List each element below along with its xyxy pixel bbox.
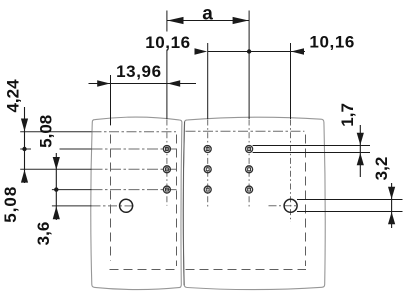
big mounting hole right xyxy=(284,199,297,212)
dimension 5,08 upper: up arrowhead at row2 xyxy=(21,170,28,183)
svg-text:10,16: 10,16 xyxy=(309,33,355,52)
svg-text:10,16: 10,16 xyxy=(145,33,191,52)
svg-text:a: a xyxy=(202,3,213,24)
dimension 1,7: vertical dimension line xyxy=(359,125,361,177)
pin circle col1 row2 xyxy=(163,166,170,173)
centerline column 3 vertical xyxy=(248,120,250,207)
centerline column 1 vertical xyxy=(166,120,168,206)
dimension 13,96: dimension line with outside tails xyxy=(89,83,197,85)
dimension 3,6: up arrowhead at big hole row xyxy=(53,206,60,219)
dimension 3,2: down arrowhead xyxy=(388,187,395,199)
pin circle col2 row3 xyxy=(204,186,211,193)
centerline pin row 2 xyxy=(20,168,91,170)
pin circle col1 row1 xyxy=(163,146,170,153)
pin circle col3 row1 xyxy=(246,146,253,153)
dimension 3,2: lower tangent line xyxy=(297,211,403,213)
pin circle col1 row3 xyxy=(163,186,170,193)
centerline column 2 vertical xyxy=(207,120,209,207)
dimension 1,7: down arrowhead xyxy=(357,133,364,145)
dimension a: left arrowhead xyxy=(167,17,183,24)
pin circle col3 row2 xyxy=(246,166,253,173)
svg-text:3,2: 3,2 xyxy=(372,157,391,181)
dimension 10,16: shared dimension line xyxy=(208,51,305,53)
pin circle col2 row2 xyxy=(204,166,211,173)
dimension 1,7: up arrowhead xyxy=(357,153,364,165)
svg-text:5,08: 5,08 xyxy=(36,115,55,148)
centerline pin row 3 xyxy=(52,189,92,191)
block junction darker line xyxy=(183,122,184,286)
svg-text:4,24: 4,24 xyxy=(4,79,23,113)
dimension a: extension line col1 xyxy=(166,11,168,120)
dimension a: dimension line xyxy=(167,20,249,22)
dimension 10,16 left: extension line col2 xyxy=(207,43,209,119)
right block outline xyxy=(183,117,325,289)
dimension 3,2: up arrowhead xyxy=(388,212,395,224)
dimension 10,16 left: arrowhead at col2 xyxy=(195,48,208,54)
dimension 10,16: junction dot at col3 xyxy=(247,49,251,53)
junction dot at row1 on line A xyxy=(22,147,26,151)
svg-text:5,08: 5,08 xyxy=(1,186,20,223)
big mounting hole left xyxy=(120,199,133,212)
dimension a: right arrowhead xyxy=(233,17,249,24)
svg-text:13,96: 13,96 xyxy=(116,62,162,81)
centerline pin row 1 xyxy=(20,148,91,150)
dimension 13,96: right outside arrowhead xyxy=(167,80,180,86)
dimension 10,16 right: extension line big hole column xyxy=(290,43,292,119)
centerline row y=131.5 right block xyxy=(186,130,305,132)
pin circle col3 row3 xyxy=(246,186,253,193)
right block hidden inner rectangle (dashed) xyxy=(186,135,307,270)
dimension 1,7: upper tangent line xyxy=(253,145,370,147)
centerline big hole row right xyxy=(269,205,298,207)
centerline big hole row left xyxy=(52,205,92,207)
centerline big hole column right vertical xyxy=(290,120,292,223)
dimension 4,24 / 5,08 chain: vertical dimension line A xyxy=(24,107,26,183)
dimension 3,2: vertical dimension line xyxy=(391,183,393,228)
svg-text:3,6: 3,6 xyxy=(34,222,53,246)
dimension 3,2: upper tangent line xyxy=(297,199,403,201)
dimension 1,7: lower tangent line xyxy=(253,152,370,154)
dimension 5,08 lower / 3,6 chain: vertical dimension line B xyxy=(55,153,57,220)
dimension 4,24: down arrowhead at y=131.8 xyxy=(21,119,28,132)
dimension 13,96: left outside arrowhead xyxy=(97,80,110,86)
left block outline xyxy=(91,117,182,290)
centerline row y=131.7 left block xyxy=(20,131,91,133)
dimension a: extension line col3 xyxy=(248,11,250,120)
pin circle col2 row1 xyxy=(204,146,211,153)
dimension 13,96: extension line x=110.3 xyxy=(110,75,112,125)
svg-text:1,7: 1,7 xyxy=(338,103,357,127)
dimension 5,08 lower: down arrowhead at row2 xyxy=(53,157,60,170)
junction dot at row3 on line B xyxy=(54,187,58,191)
left block hidden inner rectangle (dashed) xyxy=(110,135,178,270)
dimension 10,16 right: arrowhead at big hole column xyxy=(291,48,304,54)
